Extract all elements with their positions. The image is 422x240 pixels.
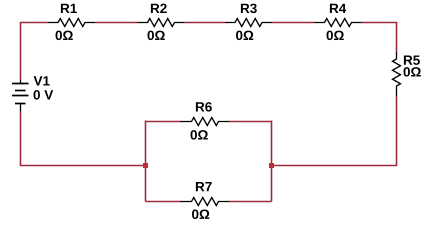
battery V1 — [12, 76, 53, 111]
label R1 — [61, 4, 77, 13]
label R7 — [196, 182, 212, 191]
wire parallel-box left side — [145, 121, 147, 202]
wire R2 to R3 — [185, 22, 226, 24]
label R5 — [404, 56, 420, 65]
value label 0 V of V1 — [34, 90, 54, 100]
value label 0Ω of R1 — [56, 31, 73, 41]
value label 0Ω of R3 — [236, 31, 253, 41]
wire bottom branch left of R7 — [146, 201, 182, 203]
label R2 — [151, 4, 167, 13]
wire battery bottom to left junction (bottom-left corner) — [21, 112, 146, 166]
value label 0Ω of R5 — [404, 67, 421, 77]
wire parallel-box right side — [271, 121, 273, 202]
resistor R4 — [315, 4, 362, 40]
node junction right — [269, 163, 274, 168]
value label 0Ω of R4 — [327, 31, 344, 41]
value label 0Ω of R6 — [191, 130, 208, 140]
label R6 — [196, 102, 212, 112]
label V1 — [34, 76, 50, 85]
wire top branch left of R6 — [146, 121, 182, 123]
label R3 — [241, 4, 257, 14]
resistor R2 — [138, 4, 185, 41]
wire R4 to R5 (top-right corner) — [362, 23, 397, 54]
label R4 — [330, 4, 346, 13]
wire R5 to right junction (right side down, middle-right horizontal) — [272, 97, 397, 166]
node junction left — [143, 163, 148, 168]
resistor R1 — [48, 4, 95, 40]
value label 0Ω of R2 — [148, 31, 165, 41]
wire bottom branch right of R7 — [229, 201, 272, 203]
resistor R5 — [393, 53, 421, 97]
wire top branch right of R6 — [229, 121, 272, 123]
resistor R3 — [225, 4, 272, 41]
wire R1 to R2 — [95, 22, 138, 24]
wire top-left (battery top to R1) — [21, 23, 49, 80]
resistor R6 — [181, 102, 230, 140]
value label 0Ω of R7 — [192, 209, 209, 219]
resistor R7 — [181, 182, 230, 219]
wire R3 to R4 — [272, 22, 315, 24]
